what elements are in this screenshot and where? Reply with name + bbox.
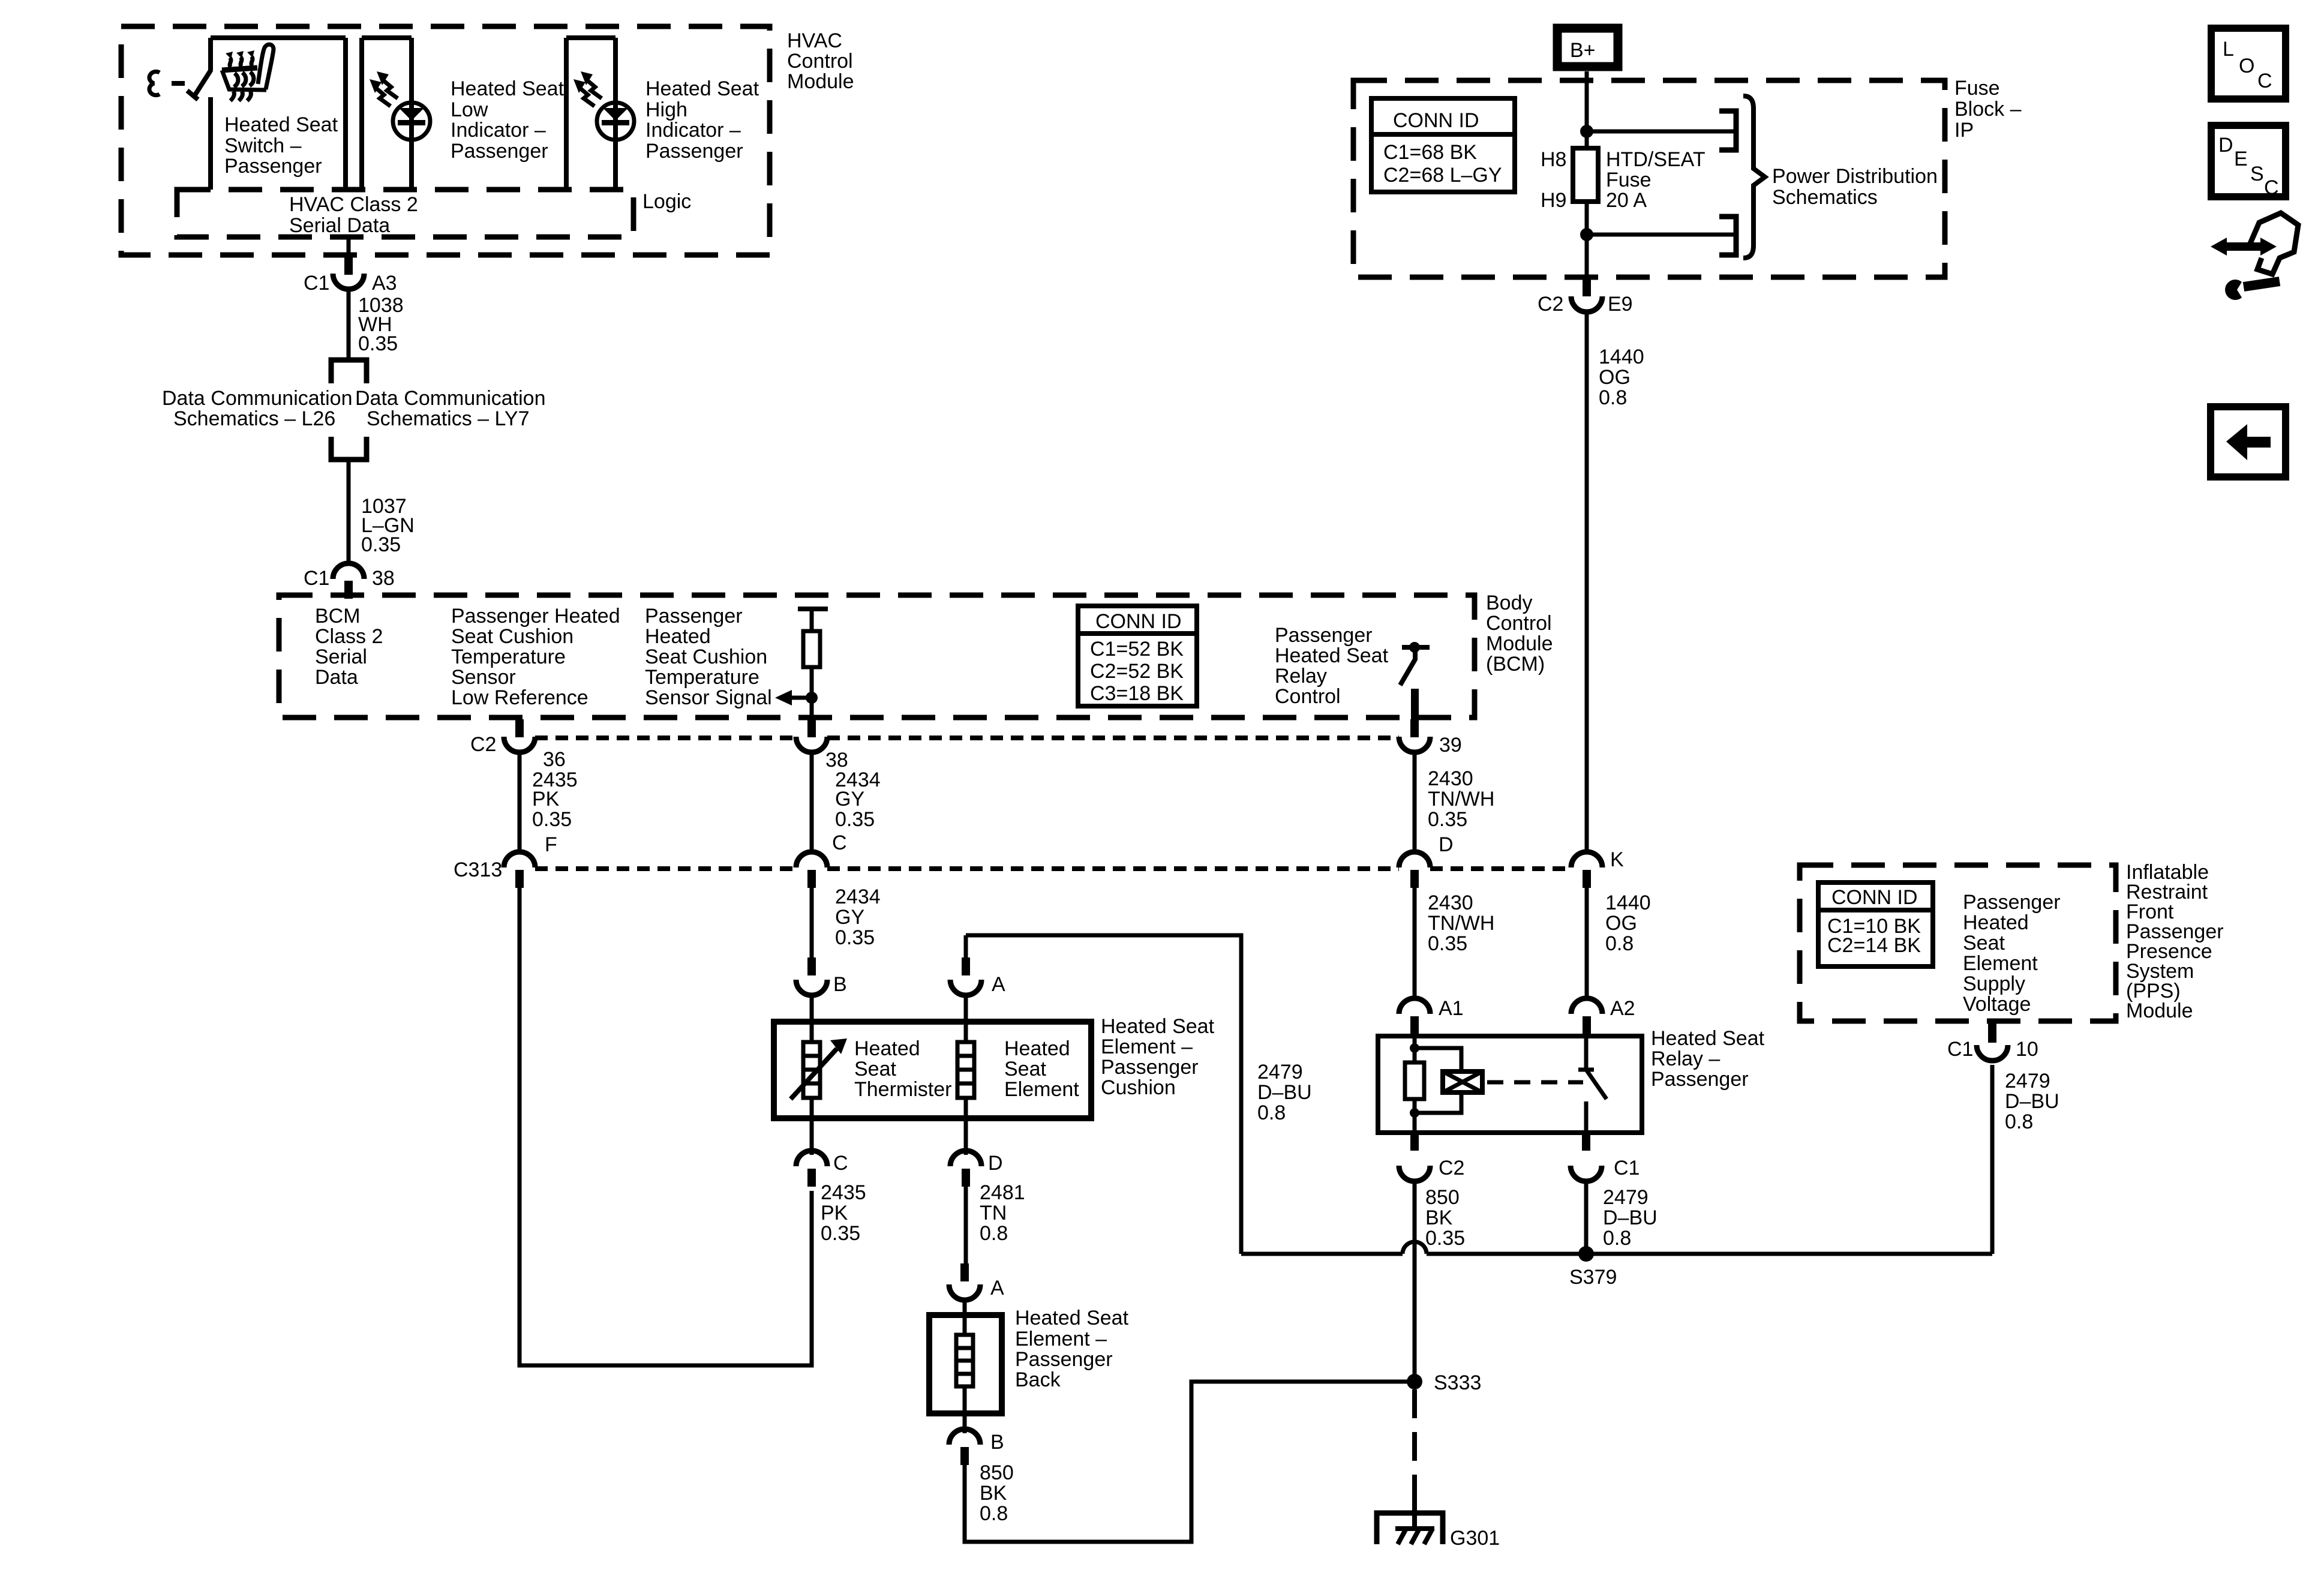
svg-text:Temperature: Temperature: [645, 666, 759, 689]
Passenger Heated Seat Element Supply Voltage label: [1963, 891, 2061, 1016]
svg-text:BCM: BCM: [315, 605, 361, 628]
svg-text:Heated Seat: Heated Seat: [1101, 1015, 1215, 1038]
svg-text:CONN ID: CONN ID: [1831, 886, 1918, 909]
svg-text:Fuse: Fuse: [1606, 169, 1652, 191]
sensor signal arrow node: [775, 690, 818, 706]
off-page bracket upper (to data communication): [331, 360, 367, 383]
wire 2481 TN 0.8: [966, 1181, 1025, 1263]
svg-text:A2: A2: [1610, 997, 1635, 1020]
svg-text:Supply: Supply: [1963, 972, 2025, 995]
svg-text:TN/WH: TN/WH: [1428, 912, 1494, 935]
svg-text:OG: OG: [1599, 366, 1631, 389]
heated seat low indicator LED branch wires: [362, 38, 412, 190]
svg-text:C2: C2: [1439, 1157, 1464, 1179]
change/history icon (arrow and wrench): [2211, 213, 2298, 300]
Passenger Heated Seat Cushion Temperature Sensor Signal label: [645, 605, 772, 709]
svg-text:Schematics: Schematics: [1772, 186, 1878, 209]
svg-text:Heated Seat: Heated Seat: [1015, 1307, 1129, 1329]
svg-text:Indicator –: Indicator –: [451, 119, 546, 142]
connector C1 pin 38 (BCM): [304, 563, 395, 599]
wire 2435 PK 0.35 lower: [821, 1181, 866, 1245]
heated seat high indicator LED DS2: [574, 71, 634, 140]
svg-text:(BCM): (BCM): [1486, 653, 1545, 676]
svg-text:Back: Back: [1015, 1368, 1061, 1391]
svg-text:2430: 2430: [1428, 891, 1473, 914]
svg-text:0.35: 0.35: [1425, 1227, 1465, 1250]
svg-text:2481: 2481: [980, 1181, 1025, 1204]
connector A1 (relay coil +): [1399, 997, 1464, 1037]
svg-text:GY: GY: [835, 788, 864, 810]
connector C2 (relay out to ground): [1399, 1131, 1464, 1181]
svg-text:36: 36: [543, 748, 566, 771]
brace to power distribution schematics: [1743, 96, 1765, 258]
relay coil (solenoid box with X): [1443, 1071, 1482, 1092]
svg-text:10: 10: [2016, 1038, 2038, 1061]
svg-text:C2=52 BK: C2=52 BK: [1090, 660, 1184, 683]
svg-text:Block –: Block –: [1954, 98, 2022, 121]
dashed wire S333 to ground: [1412, 1389, 1417, 1529]
HTD/SEAT fuse 20A: [1541, 148, 1706, 235]
svg-text:A3: A3: [372, 272, 397, 295]
svg-text:Sensor Signal: Sensor Signal: [645, 686, 772, 709]
svg-text:C1=52 BK: C1=52 BK: [1090, 638, 1184, 661]
svg-text:Voltage: Voltage: [1963, 993, 2031, 1016]
svg-text:2430: 2430: [1428, 767, 1473, 790]
Heated Seat Element - Passenger Back box: [929, 1315, 1002, 1413]
svg-text:Seat: Seat: [1963, 932, 2005, 954]
relay coil branch: [1405, 1036, 1461, 1133]
Inflatable Restraint Front Passenger Presence System (PPS) Module label: [2126, 861, 2224, 1022]
svg-text:Module: Module: [1486, 632, 1553, 655]
svg-text:Heated Seat: Heated Seat: [1651, 1027, 1765, 1050]
svg-text:Logic: Logic: [642, 190, 691, 213]
svg-text:Seat: Seat: [854, 1058, 896, 1080]
svg-text:C1: C1: [304, 567, 329, 590]
back-arrow legend box: [2211, 407, 2286, 477]
svg-text:Control: Control: [1486, 612, 1552, 635]
svg-text:C1=68 BK: C1=68 BK: [1383, 141, 1477, 164]
svg-text:Heated Seat: Heated Seat: [451, 77, 565, 100]
svg-text:Heated: Heated: [854, 1037, 920, 1060]
svg-text:Control: Control: [787, 50, 853, 73]
svg-text:Module: Module: [787, 70, 854, 93]
heated seat high indicator LED branch wires: [566, 38, 615, 190]
svg-text:A1: A1: [1439, 997, 1464, 1020]
connector C1 pin A3 (HVAC control module): [304, 255, 397, 295]
svg-text:O: O: [2239, 55, 2254, 77]
svg-text:B: B: [990, 1431, 1004, 1454]
Fuse Block - IP box: [1353, 80, 1945, 277]
junction to power distribution lower: [1580, 217, 1736, 255]
Heated Seat Low Indicator - Passenger label: [451, 77, 565, 163]
svg-text:Power Distribution: Power Distribution: [1772, 165, 1938, 188]
svg-text:H9: H9: [1541, 189, 1566, 212]
Heated Seat Relay - Passenger box: [1378, 1036, 1642, 1133]
Fuse Block - IP label: [1954, 77, 2022, 142]
svg-text:Schematics – L26: Schematics – L26: [173, 407, 335, 430]
off-page bracket lower (from data communication): [331, 437, 367, 460]
wire 1037 L-GN 0.35: [349, 460, 415, 563]
svg-text:0.35: 0.35: [835, 808, 875, 831]
svg-text:Heated: Heated: [1004, 1037, 1070, 1060]
svg-text:Fuse: Fuse: [1954, 77, 2000, 100]
connector C313 pin C: [796, 831, 847, 888]
connector C313 pin F: [454, 833, 557, 888]
svg-text:K: K: [1610, 848, 1624, 871]
splice S379: [1569, 1246, 1617, 1289]
wire 2479 D-BU 0.8 (relay C1): [1586, 1181, 1658, 1254]
HVAC Control Module label: [787, 29, 854, 93]
svg-text:39: 39: [1439, 734, 1462, 757]
svg-text:Passenger: Passenger: [1101, 1056, 1199, 1079]
svg-text:850: 850: [980, 1461, 1014, 1484]
svg-text:C2=68 L–GY: C2=68 L–GY: [1383, 164, 1502, 187]
svg-text:C1: C1: [1614, 1157, 1640, 1179]
svg-text:2479: 2479: [1603, 1186, 1649, 1209]
wire from B+ to fuse: [1585, 80, 1589, 148]
svg-text:Passenger: Passenger: [1275, 624, 1373, 647]
wire 1038 WH 0.35: [349, 290, 404, 360]
Heated Seat High Indicator - Passenger label: [645, 77, 759, 163]
relay linkage dashed: [1487, 1080, 1583, 1085]
svg-text:Data Communication: Data Communication: [162, 387, 352, 410]
svg-text:Serial: Serial: [315, 646, 367, 668]
svg-text:Class 2: Class 2: [315, 625, 383, 648]
svg-text:2434: 2434: [835, 885, 881, 908]
connector C313 pin K: [1571, 848, 1624, 888]
svg-text:E9: E9: [1608, 293, 1633, 316]
connector C2 pin E9 (fuse block): [1538, 277, 1633, 316]
Heated Seat Switch - Passenger label: [224, 113, 338, 178]
svg-text:Heated Seat: Heated Seat: [224, 113, 338, 136]
connector C2 pin 39: [1399, 719, 1462, 757]
Heated Seat Element - Passenger Back label: [1015, 1307, 1129, 1391]
svg-text:A: A: [992, 973, 1005, 996]
connector D (element cushion): [950, 1118, 1003, 1187]
svg-text:0.8: 0.8: [2005, 1110, 2033, 1133]
svg-text:Data Communication: Data Communication: [355, 387, 545, 410]
svg-text:Element –: Element –: [1101, 1035, 1193, 1058]
wire 2434 GY 0.35 upper: [812, 751, 881, 854]
heated seat element (cushion) symbol: [957, 1022, 974, 1118]
svg-text:C2=14 BK: C2=14 BK: [1827, 934, 1921, 957]
junction to power distribution upper: [1580, 111, 1736, 150]
relay switch contact: [1578, 1036, 1607, 1133]
svg-text:Element: Element: [1004, 1078, 1079, 1101]
svg-text:C: C: [832, 831, 847, 854]
wire 2434 GY 0.35 lower: [812, 885, 881, 954]
svg-text:C313: C313: [454, 858, 502, 881]
heated seat low indicator LED DS1: [370, 71, 430, 140]
svg-text:Module: Module: [2126, 999, 2193, 1022]
wire 1440 OG 0.8 lower: [1587, 888, 1651, 999]
svg-text:Passenger: Passenger: [1015, 1348, 1113, 1371]
svg-text:850: 850: [1425, 1186, 1460, 1209]
HVAC Class 2 Serial Data logic box: [177, 190, 633, 237]
svg-text:B+: B+: [1570, 39, 1596, 62]
svg-text:Heated Seat: Heated Seat: [1275, 644, 1389, 667]
svg-text:0.35: 0.35: [532, 808, 572, 831]
svg-text:Cushion: Cushion: [1101, 1076, 1176, 1099]
svg-text:0.8: 0.8: [1603, 1227, 1631, 1250]
connector A (element back): [949, 1263, 1004, 1315]
connector C1 pin 10 (PPS): [1947, 1021, 2038, 1061]
LOC legend box: [2211, 28, 2286, 99]
wire 2435 PK 0.35 upper: [520, 751, 578, 854]
DESC legend box: [2211, 125, 2286, 199]
Heated Seat Relay - Passenger label: [1651, 1027, 1765, 1091]
svg-text:GY: GY: [835, 906, 864, 929]
svg-text:BK: BK: [980, 1482, 1007, 1505]
connector C2 pin 36: [470, 719, 566, 771]
svg-text:2479: 2479: [2005, 1070, 2050, 1092]
relay control switch (inside BCM): [1400, 642, 1430, 719]
temperature sensor pull-up resistor (inside BCM): [798, 609, 828, 719]
svg-text:Passenger: Passenger: [645, 140, 743, 163]
svg-text:Control: Control: [1275, 685, 1341, 708]
connector row C313 dashed line: [535, 866, 1571, 871]
svg-text:Low: Low: [451, 98, 488, 121]
svg-text:20 A: 20 A: [1606, 189, 1647, 212]
connector row C2 (BCM) dashed line: [535, 736, 1399, 740]
Data Communication Schematics - LY7 label: [355, 387, 545, 430]
connector B (thermister): [796, 954, 847, 1023]
svg-text:C: C: [2257, 70, 2272, 92]
svg-text:PK: PK: [821, 1202, 848, 1224]
svg-text:0.35: 0.35: [1428, 808, 1467, 831]
svg-text:D: D: [1439, 833, 1454, 856]
Heated Seat Thermister label: [854, 1037, 951, 1101]
Heated Seat Element - Passenger Cushion label: [1101, 1015, 1215, 1099]
Logic label: [642, 190, 691, 213]
svg-text:Passenger: Passenger: [1651, 1068, 1749, 1091]
svg-text:Passenger: Passenger: [224, 155, 322, 178]
svg-text:F: F: [545, 833, 557, 856]
Data Communication Schematics - L26 label: [162, 387, 352, 430]
wire 2479 D-BU 0.8 (PPS): [2005, 1070, 2059, 1133]
Passenger Heated Seat Relay Control label: [1275, 624, 1389, 708]
svg-text:HTD/SEAT: HTD/SEAT: [1606, 148, 1706, 171]
connector A2 (relay switch in): [1571, 997, 1635, 1037]
svg-text:1440: 1440: [1599, 346, 1644, 368]
Heated Seat Element - Passenger Cushion box: [774, 1022, 1091, 1118]
svg-text:PK: PK: [532, 788, 560, 810]
svg-text:Data: Data: [315, 666, 358, 689]
connector C1 (relay switched out): [1571, 1131, 1640, 1181]
svg-text:High: High: [645, 98, 687, 121]
svg-text:38: 38: [372, 567, 395, 590]
wire from C313 F down and right to thermister C: [520, 888, 812, 1365]
svg-text:H8: H8: [1541, 148, 1566, 171]
Power Distribution Schematics label: [1772, 165, 1938, 209]
svg-text:0.8: 0.8: [980, 1222, 1008, 1245]
wire 850 BK 0.8 (element back to S333): [965, 1382, 1408, 1542]
svg-text:IP: IP: [1954, 119, 1974, 142]
svg-text:Sensor: Sensor: [451, 666, 516, 689]
svg-text:Thermister: Thermister: [854, 1078, 951, 1101]
svg-text:2435: 2435: [821, 1181, 866, 1204]
svg-text:0.35: 0.35: [1428, 932, 1467, 955]
svg-text:C1: C1: [304, 272, 329, 295]
B+ battery feed box: [1557, 28, 1618, 80]
svg-text:CONN ID: CONN ID: [1393, 109, 1479, 132]
svg-text:C: C: [833, 1152, 848, 1175]
svg-text:S: S: [2250, 163, 2264, 185]
svg-text:0.35: 0.35: [821, 1222, 860, 1245]
connector C313 pin D: [1399, 833, 1454, 888]
svg-text:L: L: [2223, 38, 2234, 61]
Inflatable Restraint PPS Module box: [1800, 865, 2116, 1021]
svg-text:Seat Cushion: Seat Cushion: [645, 646, 767, 668]
wire 850 BK 0.35: [1415, 1181, 1465, 1376]
svg-text:Low Reference: Low Reference: [451, 686, 588, 709]
svg-text:C2: C2: [470, 733, 496, 756]
svg-text:Passenger: Passenger: [645, 605, 743, 628]
svg-text:C: C: [2264, 176, 2279, 199]
svg-text:Element –: Element –: [1015, 1328, 1107, 1350]
svg-text:HVAC Class 2: HVAC Class 2: [289, 193, 418, 216]
CONN ID table (BCM): [1078, 606, 1197, 706]
svg-text:A: A: [990, 1277, 1004, 1299]
svg-text:Element: Element: [1963, 952, 2038, 975]
svg-text:Relay: Relay: [1275, 665, 1327, 688]
svg-text:Indicator –: Indicator –: [645, 119, 741, 142]
CONN ID table (fuse block): [1371, 98, 1515, 192]
heated seat element (back) symbol: [956, 1315, 973, 1413]
svg-text:D–BU: D–BU: [1257, 1081, 1312, 1104]
svg-text:C1: C1: [1947, 1038, 1973, 1061]
svg-text:0.8: 0.8: [980, 1502, 1008, 1525]
svg-text:S333: S333: [1434, 1371, 1481, 1394]
HVAC Control Module box: [121, 26, 770, 255]
heated seat switch S (Heated Seat Switch - Passenger): [149, 38, 346, 190]
svg-text:Seat Cushion: Seat Cushion: [451, 625, 574, 648]
wire 2430 TN/WH 0.35 upper: [1415, 751, 1494, 854]
svg-text:Heated Seat: Heated Seat: [645, 77, 759, 100]
svg-text:Heated: Heated: [1963, 911, 2029, 934]
svg-text:Passenger: Passenger: [451, 140, 548, 163]
wire from logic box to connector C1: [347, 237, 351, 257]
svg-text:Switch –: Switch –: [224, 134, 302, 157]
HVAC Class 2 Serial Data label: [289, 193, 418, 237]
wire 1440 OG 0.8 upper: [1587, 312, 1644, 854]
wire 2479 D-BU 0.8 (cushion feed) label: [1257, 1061, 1312, 1124]
splice S333: [1407, 1371, 1481, 1394]
svg-text:Schematics – LY7: Schematics – LY7: [367, 407, 530, 430]
svg-text:Passenger: Passenger: [1963, 891, 2061, 914]
svg-text:HVAC: HVAC: [787, 29, 842, 52]
wire from element A up and right to S379 branch: [966, 935, 1241, 1254]
svg-text:0.8: 0.8: [1599, 386, 1627, 409]
Heated Seat Element label: [1004, 1037, 1079, 1101]
svg-text:D–BU: D–BU: [1603, 1206, 1658, 1229]
connector A (element cushion): [950, 935, 1005, 1023]
connector C (thermister): [796, 1118, 848, 1187]
Passenger Heated Seat Cushion Temperature Sensor Low Reference label: [451, 605, 620, 709]
svg-text:0.35: 0.35: [361, 533, 401, 556]
svg-text:Serial Data: Serial Data: [289, 214, 390, 237]
Body Control Module (BCM) box: [279, 595, 1475, 718]
svg-text:TN/WH: TN/WH: [1428, 788, 1494, 810]
svg-text:C3=18 BK: C3=18 BK: [1090, 682, 1184, 705]
heated seat thermister RT: [791, 1022, 847, 1118]
svg-text:Passenger Heated: Passenger Heated: [451, 605, 620, 628]
svg-text:Heated: Heated: [645, 625, 711, 648]
wire 2430 TN/WH 0.35 lower: [1415, 888, 1494, 999]
svg-text:BK: BK: [1425, 1206, 1453, 1229]
Body Control Module (BCM) label: [1486, 592, 1553, 676]
svg-text:Body: Body: [1486, 592, 1533, 614]
connector B (element back): [949, 1413, 1004, 1465]
splice wire to S379 and PPS with hop over 850 BK: [1241, 1065, 1992, 1254]
heated seat icon (switch pictograph): [222, 44, 274, 101]
svg-text:OG: OG: [1605, 912, 1637, 935]
svg-text:2479: 2479: [1257, 1061, 1303, 1083]
svg-text:TN: TN: [980, 1202, 1007, 1224]
svg-text:D: D: [988, 1152, 1003, 1175]
ground G301: [1377, 1513, 1500, 1550]
svg-text:Seat: Seat: [1004, 1058, 1046, 1080]
svg-text:CONN ID: CONN ID: [1095, 610, 1182, 633]
wire from fuse to C2 E9: [1585, 235, 1589, 278]
connector C2 pin 38: [796, 719, 848, 772]
svg-text:C2: C2: [1538, 293, 1563, 316]
svg-text:0.35: 0.35: [835, 926, 875, 949]
svg-text:1440: 1440: [1605, 891, 1651, 914]
svg-text:S379: S379: [1569, 1266, 1617, 1289]
CONN ID table (PPS): [1818, 882, 1933, 966]
svg-text:Relay –: Relay –: [1651, 1047, 1720, 1070]
svg-text:D–BU: D–BU: [2005, 1090, 2059, 1113]
svg-text:0.35: 0.35: [358, 332, 398, 355]
svg-text:Temperature: Temperature: [451, 646, 566, 668]
svg-text:0.8: 0.8: [1605, 932, 1634, 955]
svg-text:B: B: [833, 973, 847, 996]
svg-text:D: D: [2218, 134, 2233, 157]
svg-text:0.8: 0.8: [1257, 1101, 1286, 1124]
svg-text:G301: G301: [1450, 1527, 1500, 1550]
BCM Class 2 Serial Data label: [315, 605, 383, 689]
svg-text:E: E: [2234, 148, 2248, 170]
